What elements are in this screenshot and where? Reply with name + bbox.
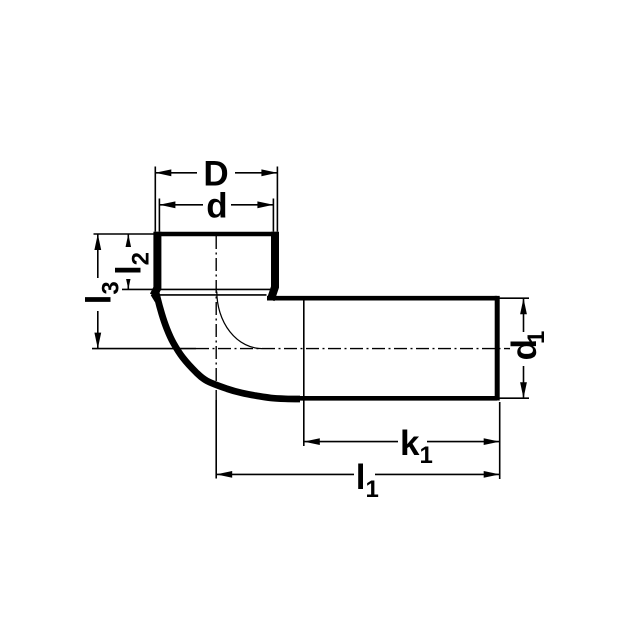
svg-text:d: d: [206, 186, 227, 225]
